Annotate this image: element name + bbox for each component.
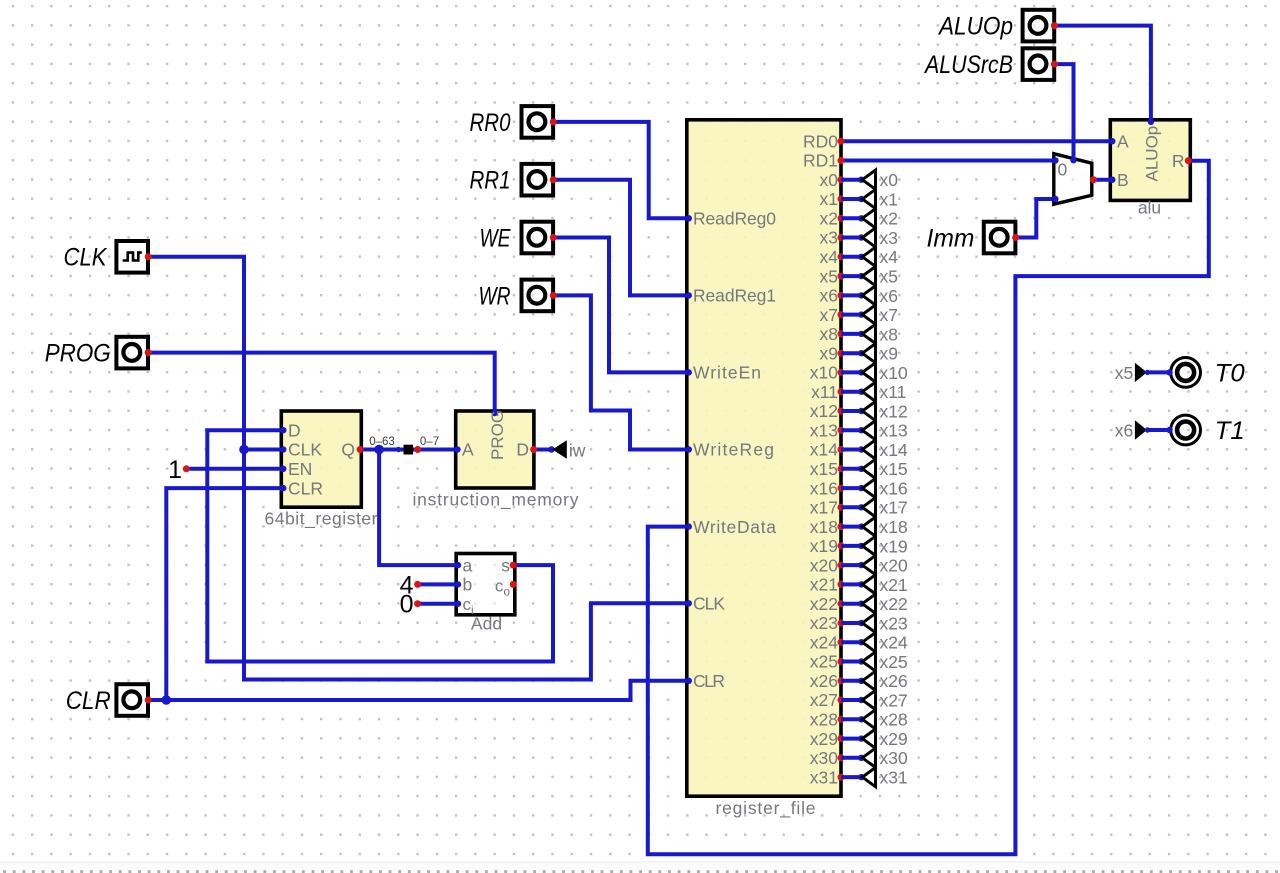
svg-text:T0: T0 [1215, 360, 1245, 388]
svg-text:x8: x8 [820, 324, 838, 344]
svg-text:x6: x6 [1115, 420, 1133, 440]
input pin CLK [116, 241, 148, 273]
svg-text:x5: x5 [1115, 363, 1133, 383]
svg-text:x0: x0 [820, 170, 839, 190]
wire net WE [553, 238, 687, 373]
svg-text:x6: x6 [820, 286, 838, 306]
svg-text:x24: x24 [880, 633, 908, 653]
svg-text:instruction_memory: instruction_memory [413, 490, 579, 511]
svg-text:x6: x6 [880, 286, 898, 306]
tunnel x0 [841, 178, 862, 182]
register_file pin x25 [838, 658, 845, 665]
svg-text:x13: x13 [880, 421, 908, 441]
tunnel iw [548, 446, 554, 452]
wire net EN constant 1 [186, 467, 281, 471]
register_file pin x13 [838, 427, 845, 434]
svg-text:D: D [516, 440, 529, 460]
svg-text:x29: x29 [880, 729, 908, 749]
svg-text:RR1: RR1 [470, 167, 511, 195]
register_file pin x21 [838, 581, 845, 588]
tunnel x20 [841, 563, 862, 567]
register_file pin x0 [838, 176, 845, 183]
register_file pin x29 [838, 735, 845, 742]
svg-text:x1: x1 [820, 189, 838, 209]
svg-text:a: a [463, 555, 473, 575]
wire net RD1 [841, 159, 1055, 163]
svg-text:EN: EN [288, 459, 312, 479]
svg-text:ALUSrcB: ALUSrcB [923, 51, 1013, 79]
input pin RR0 [522, 106, 554, 138]
svg-text:x21: x21 [880, 575, 908, 595]
svg-text:T1: T1 [1215, 417, 1245, 445]
bottom canvas edge [0, 862, 1280, 873]
svg-text:WriteData: WriteData [693, 517, 776, 537]
svg-text:0–7: 0–7 [420, 436, 439, 448]
tunnel x23 [841, 621, 862, 625]
tunnel x30 [841, 756, 862, 760]
alu pin R [1185, 157, 1192, 164]
wire net ALUSrcB [1054, 64, 1073, 160]
svg-text:x3: x3 [880, 228, 898, 248]
tunnel x1 [841, 197, 862, 201]
wire net RR1 [553, 180, 687, 296]
register_file pin ReadReg1 [686, 292, 692, 298]
junction Q [374, 445, 384, 455]
tunnel x12 [841, 409, 862, 413]
svg-text:x2: x2 [820, 209, 838, 229]
64bit_register pin D [280, 427, 286, 433]
Add pin a [455, 562, 461, 568]
register_file pin x14 [838, 446, 845, 453]
svg-text:x26: x26 [810, 671, 838, 691]
svg-text:Add: Add [471, 614, 502, 634]
svg-text:x5: x5 [880, 267, 898, 287]
mux pin in1 [1052, 196, 1058, 202]
alu U5 body [1110, 120, 1190, 201]
tunnel x29 [841, 737, 862, 741]
svg-text:WE: WE [480, 224, 511, 252]
svg-text:CLK: CLK [288, 440, 322, 460]
svg-text:x17: x17 [880, 498, 908, 518]
register_file pin x30 [838, 754, 845, 761]
register_file pin x27 [838, 697, 845, 704]
instruction_memory pin A [454, 446, 460, 452]
svg-text:CLK: CLK [693, 594, 725, 614]
register_file pin WriteReg [686, 446, 692, 452]
register_file pin x2 [838, 215, 845, 222]
input pin Imm [984, 222, 1016, 254]
register_file pin x4 [838, 253, 845, 260]
alu pin B [1109, 177, 1115, 183]
tunnel x19 [841, 544, 862, 548]
tunnel x13 [841, 428, 862, 432]
svg-text:x8: x8 [880, 324, 898, 344]
svg-text:x30: x30 [880, 748, 908, 768]
svg-text:ReadReg1: ReadReg1 [693, 286, 776, 306]
wire Q branch to Add.a [379, 450, 456, 566]
tunnel x5 [841, 274, 862, 278]
svg-text:1: 1 [168, 456, 182, 484]
register_file pin x28 [838, 716, 845, 723]
tunnel x9 [841, 351, 862, 355]
wire net Q to splitter [360, 448, 403, 452]
wire net splitter to instruction_memory.A [412, 448, 456, 452]
tunnel x2 [841, 216, 862, 220]
register_file pin RD0 [838, 138, 845, 145]
svg-text:x25: x25 [810, 652, 838, 672]
svg-text:x12: x12 [810, 401, 838, 421]
svg-text:x11: x11 [811, 382, 838, 402]
svg-text:x4: x4 [820, 247, 839, 267]
svg-text:x22: x22 [880, 594, 908, 614]
svg-text:CLR: CLR [288, 478, 323, 498]
wire net ALUOp [1054, 26, 1151, 121]
svg-text:WriteReg: WriteReg [693, 440, 774, 460]
adder U4 Add body [456, 554, 515, 615]
svg-text:CLK: CLK [64, 244, 108, 272]
tunnel x14 [841, 448, 862, 452]
svg-text:CLR: CLR [693, 671, 725, 691]
output pin T1 [1171, 415, 1201, 445]
junction CLR [162, 695, 172, 705]
tunnel x15 [841, 467, 862, 471]
wire net PROG [148, 353, 494, 411]
svg-text:x7: x7 [880, 305, 898, 325]
tunnel x28 [841, 717, 862, 721]
register_file pin WriteEn [686, 369, 692, 375]
register_file pin WriteData [686, 523, 692, 529]
wire net Add.s to 64bit_register.D [207, 430, 553, 661]
register_file pin x12 [838, 408, 845, 415]
svg-text:x23: x23 [810, 613, 838, 633]
svg-text:0: 0 [400, 591, 414, 619]
tunnel x6 (to T1) [1135, 420, 1147, 439]
register_file pin x22 [838, 600, 845, 607]
rom U2 instruction_memory body [456, 411, 534, 488]
64bit_register pin CLK [280, 446, 286, 452]
svg-text:x26: x26 [880, 671, 908, 691]
tunnel x31 [841, 775, 862, 779]
svg-text:x3: x3 [820, 228, 838, 248]
svg-text:A: A [462, 440, 474, 460]
wire net RD0 [841, 139, 1112, 143]
svg-text:CLR: CLR [66, 687, 111, 715]
64bit_register pin Q [357, 446, 364, 453]
register_file pin CLK [686, 600, 692, 606]
svg-text:0–63: 0–63 [369, 436, 395, 448]
svg-text:x19: x19 [880, 536, 908, 556]
register_file pin x31 [838, 774, 845, 781]
svg-text:ReadReg0: ReadReg0 [693, 209, 776, 229]
svg-text:x0: x0 [880, 170, 899, 190]
svg-text:x18: x18 [810, 517, 838, 537]
register_file pin CLR [686, 678, 692, 684]
register_file pin x24 [838, 639, 845, 646]
tunnel x26 [841, 679, 862, 683]
svg-text:x20: x20 [810, 555, 838, 575]
input pin WR [522, 280, 554, 312]
svg-text:x1: x1 [880, 189, 898, 209]
wire net x5 to T0 [1147, 370, 1170, 374]
junction CLK at 64bit_register.CLK [239, 445, 249, 455]
wire net x6 to T1 [1147, 428, 1170, 432]
svg-text:x31: x31 [880, 768, 908, 788]
input pin CLR [116, 684, 148, 716]
wire net RR0 [553, 122, 687, 218]
svg-text:PROG: PROG [45, 340, 111, 368]
register_file pin x26 [838, 677, 845, 684]
svg-text:R: R [1172, 151, 1185, 171]
svg-text:PROG: PROG [488, 410, 507, 460]
svg-text:RR0: RR0 [470, 109, 511, 137]
Add pin s [510, 562, 517, 569]
instruction_memory pin D [530, 446, 537, 453]
svg-text:x19: x19 [810, 536, 838, 556]
input pin ALUOp [1023, 10, 1055, 42]
svg-text:x9: x9 [880, 344, 898, 364]
svg-text:x23: x23 [880, 613, 908, 633]
register U1 64bit_register body [281, 411, 361, 507]
input pin WE [522, 222, 554, 254]
svg-text:register_file: register_file [716, 798, 816, 819]
svg-text:x9: x9 [820, 343, 838, 363]
svg-text:x10: x10 [880, 363, 908, 383]
tunnel x4 [841, 255, 862, 259]
svg-text:x4: x4 [880, 247, 899, 267]
alu pin ALUOp [1148, 119, 1154, 125]
svg-text:B: B [1117, 170, 1129, 190]
wire net alu.R writeback [648, 161, 1209, 855]
register_file pin x19 [838, 542, 845, 549]
svg-text:x20: x20 [880, 556, 908, 576]
register_file pin x6 [838, 292, 845, 299]
wire net CLK [148, 257, 687, 680]
svg-text:x16: x16 [810, 478, 838, 498]
tunnel x22 [841, 602, 862, 606]
register_file pin x17 [838, 504, 845, 511]
svg-text:x14: x14 [880, 440, 908, 460]
tunnel x10 [841, 370, 862, 374]
64bit_register pin CLR [280, 485, 286, 491]
wire net constant 0 to Add.ci [418, 602, 457, 606]
tunnel x11 [841, 390, 862, 394]
svg-text:x21: x21 [810, 575, 838, 595]
mux pin in0 [1052, 157, 1058, 163]
register_file pin x5 [838, 273, 845, 280]
svg-text:64bit_register: 64bit_register [265, 509, 378, 530]
svg-text:x31: x31 [810, 767, 838, 787]
wire net WR [553, 295, 687, 449]
splitter S1 0-63 to 0-7 [404, 445, 414, 455]
svg-text:b: b [463, 575, 473, 595]
tunnel x17 [841, 505, 862, 509]
svg-text:A: A [1117, 131, 1129, 151]
register_file pin x16 [838, 485, 845, 492]
svg-text:iw: iw [569, 440, 586, 460]
register_file pin x8 [838, 330, 845, 337]
register_file pin x1 [838, 196, 845, 203]
tunnel x25 [841, 660, 862, 664]
register_file pin x15 [838, 465, 845, 472]
tunnel x18 [841, 525, 862, 529]
svg-text:x5: x5 [820, 266, 838, 286]
svg-text:RD0: RD0 [803, 131, 838, 151]
svg-text:x27: x27 [810, 690, 838, 710]
mux pin sel [1070, 157, 1076, 163]
register_file pin x20 [838, 562, 845, 569]
svg-text:x11: x11 [880, 382, 907, 402]
register_file pin x23 [838, 620, 845, 627]
svg-text:x30: x30 [810, 748, 838, 768]
svg-text:ALUOp: ALUOp [937, 13, 1013, 41]
svg-text:Imm: Imm [927, 224, 975, 252]
svg-text:WR: WR [479, 282, 511, 310]
register_file pin x11 [838, 388, 845, 395]
svg-text:RD1: RD1 [803, 151, 838, 171]
alu pin A [1109, 138, 1115, 144]
Add pin ci [455, 601, 461, 607]
tunnel x5 (to T0) [1135, 363, 1147, 382]
svg-text:x18: x18 [880, 517, 908, 537]
svg-text:x24: x24 [810, 632, 838, 652]
input pin RR1 [522, 164, 554, 196]
svg-text:x28: x28 [810, 710, 838, 730]
instruction_memory pin PROG [492, 410, 498, 416]
svg-text:x7: x7 [820, 305, 838, 325]
mux pin out [1090, 176, 1097, 183]
register file U3 body [687, 120, 841, 796]
svg-text:x12: x12 [880, 401, 908, 421]
tunnel x3 [841, 236, 862, 240]
input pin PROG [116, 337, 148, 369]
svg-text:x22: x22 [810, 594, 838, 614]
register_file pin RD1 [838, 157, 845, 164]
output pin T0 [1171, 358, 1201, 388]
mux M1 body [1054, 154, 1092, 205]
wire net mux out to alu.B [1093, 178, 1112, 182]
register_file pin x7 [838, 311, 845, 318]
tunnel x27 [841, 698, 862, 702]
svg-text:x15: x15 [880, 459, 908, 479]
wire CLK branch to 64bit_register [244, 448, 281, 452]
register_file pin x18 [838, 523, 845, 530]
Add pin co [510, 581, 517, 588]
svg-text:ALUOp: ALUOp [1143, 126, 1162, 182]
svg-text:x27: x27 [880, 690, 908, 710]
wire net CLR [148, 681, 687, 700]
wire net constant 4 to Add.b [418, 582, 457, 586]
tunnel x24 [841, 640, 862, 644]
register_file pin ReadReg0 [686, 215, 692, 221]
svg-text:alu: alu [1138, 198, 1161, 218]
svg-text:WriteEn: WriteEn [693, 363, 761, 383]
svg-text:x29: x29 [810, 729, 838, 749]
Add pin b [455, 581, 461, 587]
register_file pin x10 [838, 369, 845, 376]
tunnel x16 [841, 486, 862, 490]
tunnel x6 [841, 293, 862, 297]
tunnel x21 [841, 582, 862, 586]
svg-text:x13: x13 [810, 420, 838, 440]
tunnel x8 [841, 332, 862, 336]
svg-text:x28: x28 [880, 710, 908, 730]
svg-text:x10: x10 [810, 363, 838, 383]
register_file pin x3 [838, 234, 845, 241]
svg-text:x16: x16 [880, 479, 908, 499]
wire CLR branch to 64bit_register [166, 488, 281, 700]
input pin ALUSrcB [1023, 48, 1055, 80]
svg-text:0: 0 [1058, 160, 1068, 180]
svg-text:s: s [501, 555, 510, 575]
svg-text:x14: x14 [810, 440, 838, 460]
svg-text:x2: x2 [880, 209, 898, 229]
wire net Imm [1016, 199, 1056, 238]
tunnel x7 [841, 313, 862, 317]
64bit_register pin EN [280, 466, 286, 472]
svg-text:x17: x17 [810, 498, 838, 518]
wire net instruction_memory.D to iw [534, 448, 552, 452]
svg-text:Q: Q [341, 440, 355, 460]
register_file pin x9 [838, 350, 845, 357]
svg-text:x25: x25 [880, 652, 908, 672]
svg-text:x15: x15 [810, 459, 838, 479]
svg-text:D: D [288, 420, 301, 440]
